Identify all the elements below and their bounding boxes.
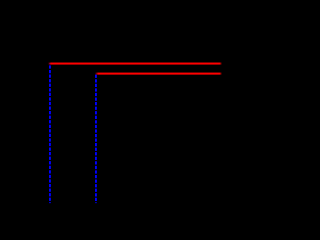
red horizontal line 2 (y ~ 73.6) bbox=[95, 73, 222, 75]
blue dashed vertical line 2 (x ~ 95.95) bbox=[95, 74, 97, 204]
red horizontal line 1 (y ~ 63.55) bbox=[48, 63, 222, 65]
blue dashed vertical line 1 (x ~ 49.95) bbox=[49, 64, 51, 204]
